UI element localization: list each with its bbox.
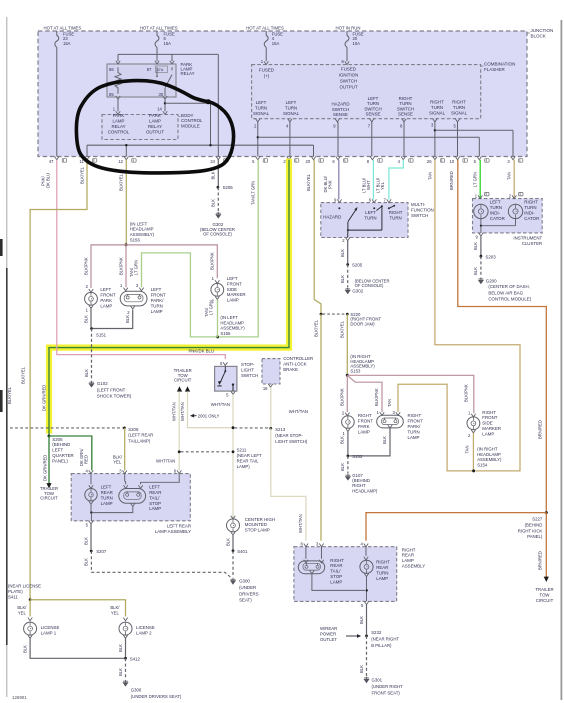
svg-text:15A: 15A [272,41,280,46]
svg-text:TURN: TURN [285,106,297,111]
ground G302 (switch side) [345,288,351,295]
wire TAN JB pin 26 to splice S154 and right front turn lamps [435,160,520,471]
svg-text:BLK/PNK: BLK/PNK [83,257,88,275]
svg-text:OUTPUT: OUTPUT [339,84,357,89]
body control module [102,115,178,140]
flasher pin 6 fused ignition switch output [345,61,349,64]
svg-text:S211: S211 [237,448,247,453]
svg-text:PNK/DK BLU: PNK/DK BLU [188,348,214,353]
wire flasher 7 to JB pin 8 [371,122,373,157]
dashed link left rear S211 [181,451,232,453]
svg-text:BLK: BLK [382,436,387,444]
svg-text:PLATE): PLATE) [8,589,23,594]
svg-text:BLK/YEL: BLK/YEL [119,173,124,191]
splice S205 (console) [217,186,220,189]
ground G102 left front shock tower [88,381,94,388]
svg-text:DOOR JAM): DOOR JAM) [350,322,375,327]
splice S206 [48,435,51,438]
wire BLK/PNK S153 to right front park lamp pin 2 [346,375,348,412]
svg-text:BLK: BLK [83,315,88,323]
wire BLK left rear pin 5 to splice S207 [90,524,92,550]
svg-text:26: 26 [427,159,432,164]
svg-text:STOP: STOP [149,501,161,506]
svg-text:RIGHT: RIGHT [358,413,372,418]
svg-text:(LEFT REAR: (LEFT REAR [128,433,153,438]
svg-text:CLUSTER: CLUSTER [522,241,543,246]
wire TAN right front side marker pin 2 to S154 [472,433,474,470]
svg-text:SENSE: SENSE [333,112,348,117]
svg-text:YEL: YEL [380,181,385,190]
wire WHT/TAN trailer branch 1 to left rear pin 6 [178,391,180,470]
svg-text:HOT AT ALL TIMES: HOT AT ALL TIMES [246,25,284,30]
svg-text:LAMP: LAMP [100,303,112,308]
svg-text:LAMP: LAMP [151,309,163,314]
svg-text:TAN: TAN [387,399,392,407]
wire BLK/PNK S156 to left front park lamp pin 2 [91,245,126,288]
wire DK GRN/RED S206 to left rear turn lamp pin 4 [49,436,92,470]
svg-text:HEADLAMP): HEADLAMP) [352,488,378,493]
svg-text:S205: S205 [223,185,234,190]
svg-text:LT GRN: LT GRN [473,172,478,187]
relay switch contact 87 to 30/87A [156,67,158,75]
wire side marker pin2 to S155 [217,299,219,302]
flasher pin 2 left turn signal [256,119,260,122]
svg-text:(CENTER OF DASH,: (CENTER OF DASH, [488,284,529,289]
splice S156 [125,243,128,246]
svg-text:SWITCH: SWITCH [411,213,428,218]
wire BLK S205 to ground G302 (dashed) [347,265,349,288]
svg-text:TURN: TURN [399,101,411,106]
wire BLK/PNK S153 to right front park/turn pin 1 [347,375,382,412]
wire flasher 2 to JB pin 5 with branch to cluster pin 5 [257,122,259,157]
svg-text:ASSEMBLY: ASSEMBLY [402,563,425,568]
svg-text:LEFT: LEFT [286,100,297,105]
splice S154 [472,469,475,472]
wire BLK license lamp 1 to S412 [30,638,124,658]
svg-text:CONTROL: CONTROL [181,118,203,123]
svg-text:SWITCH: SWITCH [364,106,381,111]
wire BLK/YEL JB pin 20 to splice S220 [314,160,321,314]
svg-text:LAMP: LAMP [149,506,161,511]
svg-text:STOP LAMP: STOP LAMP [245,527,270,532]
svg-text:SEAT): SEAT) [239,598,252,603]
wire WHT/TAN stop light switch pin 5 down to center stop lamp [232,394,234,519]
svg-text:BLK: BLK [118,668,123,676]
wire BRN/RED S227 to right rear turn pin 4 [366,513,546,541]
svg-text:LAMP): LAMP) [237,464,251,469]
svg-text:RIGHT: RIGHT [524,200,538,205]
svg-text:G102: G102 [97,381,108,386]
trailer tow circuit stop lamp arrows [177,386,182,391]
svg-text:TURN: TURN [367,101,379,106]
svg-text:CENTER HIGH: CENTER HIGH [245,517,275,522]
svg-text:(LEFT FRONT: (LEFT FRONT [97,387,126,392]
svg-text:SWITCH: SWITCH [241,373,258,378]
park lamp output bus inside junction block [87,144,314,146]
wire WHT/TAN ABS pin 18 to splice S213 [270,387,272,427]
wire BLK left front park lamp to S151 [90,308,92,327]
svg-text:47: 47 [49,159,54,164]
wire WHT/TAN S213 to right rear pin 6 [271,428,306,540]
svg-text:S203: S203 [485,254,496,259]
svg-text:LEFT: LEFT [100,287,111,292]
svg-text:BLK: BLK [473,242,478,250]
wire BLK license lamp 2 to S412 [125,638,127,658]
svg-text:S151: S151 [96,333,107,338]
svg-text:REAR TAIL: REAR TAIL [237,458,259,463]
wire flasher 9 to JB pin 6 [337,122,339,157]
mfs internal common wire [381,205,383,207]
svg-text:FLASHER: FLASHER [484,67,506,72]
flasher pin 1 fused(+) [264,61,268,64]
svg-text:G302: G302 [352,289,363,294]
splice S151 [90,327,93,330]
relay coil [115,67,121,94]
svg-text:MODULE: MODULE [181,124,200,129]
svg-text:BLK: BLK [473,267,478,275]
svg-text:(UNDER RIGHT: (UNDER RIGHT [372,684,404,689]
svg-text:RED: RED [84,455,89,464]
right rear pin 6 [304,544,308,547]
svg-text:(+): (+) [264,73,270,78]
license lamp 2 [123,618,127,621]
svg-text:G300: G300 [131,688,142,693]
park lamp relay K1 [107,64,176,97]
svg-text:PARK: PARK [358,424,370,429]
right rear assembly pin 5 [364,601,368,604]
svg-text:(BEHIND: (BEHIND [52,442,70,447]
svg-text:TURN: TURN [376,570,388,575]
svg-text:LAMP: LAMP [482,431,494,436]
svg-text:12: 12 [118,159,123,164]
wire BRN/RED JB pin 10 to splice S227 [458,160,547,511]
svg-text:S411: S411 [8,595,18,600]
svg-text:CATOR: CATOR [524,216,539,221]
multi-function switch [321,203,408,238]
splice S220 right front door jam [320,313,323,316]
svg-text:LAMP: LAMP [330,579,342,584]
svg-text:(NEAR RIGHT: (NEAR RIGHT [371,637,399,642]
flasher pin 4 left turn signal [288,119,292,122]
splice S232 near right B pillar [365,635,368,638]
left rear lamp assembly [71,474,190,521]
svg-text:LAMP: LAMP [358,430,370,435]
svg-text:FUNCTION: FUNCTION [411,208,434,213]
svg-text:PARK/: PARK/ [408,424,422,429]
svg-text:(IN RIGHT: (IN RIGHT [477,447,498,452]
svg-text:HOT IN RUN: HOT IN RUN [336,25,361,30]
svg-text:LEFT: LEFT [151,287,162,292]
svg-text:LAMP ASSEMBLY: LAMP ASSEMBLY [155,529,191,534]
wire BLK/YEL JB pin 12 to splice S156 [125,160,127,244]
svg-text:MARKER: MARKER [227,292,246,297]
license lamp 1 [28,618,32,621]
splice S203 [480,255,483,258]
svg-text:DK GRN/RED: DK GRN/RED [42,385,47,411]
svg-text:HEADLAMP: HEADLAMP [130,227,154,232]
wire BLK S401 to ground G300 (dashed) [232,551,234,578]
svg-text:BLK/PNK: BLK/PNK [118,257,123,275]
svg-text:FRONT: FRONT [358,419,373,424]
svg-text:SENSE: SENSE [366,112,381,117]
wire TAN/LT GRN JB pin 5 to splice S155 [219,160,258,337]
svg-text:18: 18 [263,386,268,391]
wire BLK/YEL S209 to left rear pin 3 [124,428,126,470]
left edge scan artifact 2 [0,390,3,412]
svg-text:DK GRN/RED: DK GRN/RED [43,455,48,481]
svg-text:RIGHT: RIGHT [430,99,444,104]
svg-text:RIGHT: RIGHT [482,410,496,415]
svg-text:S232: S232 [371,630,382,635]
svg-text:BLK/PNK: BLK/PNK [339,388,344,406]
svg-text:(UNDER: (UNDER [239,585,256,590]
svg-text:86: 86 [109,67,114,72]
junction block bottom connector pins [55,157,59,160]
svg-text:CONTROL MODULE): CONTROL MODULE) [488,297,531,302]
svg-text:BRN/RED: BRN/RED [538,420,543,439]
svg-text:MARKER: MARKER [482,426,501,431]
flasher pin 9 hazard switch sense [335,119,339,122]
wire relay 30 / BCM pin 14 junction to output riser [164,99,166,111]
wire BLK chmsl to splice S401 [232,535,234,549]
svg-text:BLK: BLK [211,171,216,179]
svg-text:BLK/PNK: BLK/PNK [210,252,215,270]
center high mounted stop lamp [231,516,235,519]
relay pin 30 [163,96,167,99]
ground G302 below center of console [215,212,221,219]
svg-text:LIGHT: LIGHT [241,367,254,372]
svg-text:REAR: REAR [376,565,388,570]
svg-text:TURN: TURN [453,105,465,110]
svg-text:LEFT: LEFT [227,276,238,281]
splice S205 (switch) [346,263,349,266]
right rear turn lamp [365,547,367,556]
svg-text:S412: S412 [130,657,141,662]
svg-text:G300: G300 [239,579,250,584]
svg-text:LAMP 2: LAMP 2 [136,630,152,635]
wire BLK S203 to ground G200 (dashed) [480,256,482,277]
wire BLK S205 to ground G302 (dashed) [217,187,219,211]
wire DK BLU/PNK JB pin 6 to multifunction switch pin 9 [338,160,340,200]
svg-text:BLK/YEL: BLK/YEL [306,173,311,191]
svg-text:BRN/RED: BRN/RED [449,171,454,190]
svg-text:RIGHT: RIGHT [376,560,390,565]
mfs pin 9 [337,199,341,202]
wire LT BLU/WHT JB pin 8 to multifunction switch pin 6 [372,160,374,200]
svg-text:SWITCH: SWITCH [397,106,414,111]
svg-text:WHT/TAN: WHT/TAN [289,409,308,414]
svg-text:LAMP: LAMP [101,501,113,506]
junction block (fuse/relay center) [38,31,527,157]
wire BLK S207 to ground G300 (dashed) [91,551,231,578]
wire BLK S412 to ground G300 (dashed) [125,658,127,679]
ink blob on circle [206,99,211,104]
fuse 23 15A [56,31,58,36]
junction dot stop lamp wire [232,426,235,429]
left rear turn lamp [90,474,92,485]
svg-text:14: 14 [157,106,162,111]
svg-text:TURN: TURN [101,495,113,500]
relay pin 86 [116,61,120,64]
hand-drawn circle annotation around park lamp relay circuit [76,81,233,173]
wire BLK/PNK S156 to left front side marker pin 1 [126,245,217,278]
svg-text:TURN: TURN [389,216,401,221]
svg-text:SHOCK TOWER): SHOCK TOWER) [97,394,132,399]
svg-text:CIRCUIT: CIRCUIT [174,378,192,383]
svg-text:BLK: BLK [359,665,364,673]
svg-text:ASSEMBLY): ASSEMBLY) [220,326,245,331]
svg-text:INDI-: INDI- [524,211,535,216]
svg-text:LEFT: LEFT [365,210,376,215]
svg-text:BLK/PNK: BLK/PNK [374,388,379,406]
svg-text:S206: S206 [52,437,63,442]
svg-text:CIRCUIT: CIRCUIT [536,598,554,603]
svg-text:(IN LEFT: (IN LEFT [220,315,238,320]
svg-text:REAR: REAR [402,553,414,558]
svg-text:S152: S152 [352,454,363,459]
right rear pin 3 [319,544,323,547]
cluster pin 1 [478,195,482,198]
svg-text:ASSEMBLY): ASSEMBLY) [477,457,502,462]
wire flasher 4 to JB pin 2 [289,122,291,157]
svg-text:LEFT: LEFT [149,485,160,490]
svg-text:ASSEMBLY): ASSEMBLY) [130,232,155,237]
svg-text:RIGHT: RIGHT [399,96,413,101]
svg-text:RELAY: RELAY [181,71,195,76]
left page border [6,17,8,697]
svg-text:BLK/YEL: BLK/YEL [80,166,85,184]
svg-text:HEADLAMP: HEADLAMP [220,320,244,325]
svg-text:S207: S207 [96,549,107,554]
svg-text:BELOW AIR BAG: BELOW AIR BAG [488,290,523,295]
svg-text:(IN LEFT: (IN LEFT [130,221,148,226]
svg-text:TURN: TURN [151,303,163,308]
wire flasher 3 to JB pin 26 with branch to JB pin 3 [434,122,436,157]
2001 only note [190,414,194,418]
svg-text:TAN: TAN [465,445,470,453]
svg-text:FRONT: FRONT [482,415,497,420]
svg-text:BLK/YEL: BLK/YEL [7,386,12,404]
svg-text:LICENSE: LICENSE [136,625,155,630]
svg-text:BLK: BLK [125,315,130,323]
svg-text:PARK: PARK [113,113,125,118]
left edge scan artifact 1 [0,239,3,256]
svg-text:LT GRN: LT GRN [134,260,139,275]
svg-text:BLK: BLK [340,249,345,257]
svg-text:PANEL): PANEL) [527,534,543,539]
svg-text:LAMP: LAMP [227,298,239,303]
stop light switch contacts [224,366,226,370]
svg-text:TAN/LT GRN: TAN/LT GRN [251,181,256,205]
right page border [560,20,562,700]
wire flasher 5 to JB pin 10 [457,122,459,157]
svg-text:YEL: YEL [18,610,27,615]
svg-text:126901: 126901 [12,695,27,700]
svg-text:BLK: BLK [339,436,344,444]
svg-text:OUTPUT: OUTPUT [146,129,164,134]
svg-text:87A: 87A [157,68,164,72]
svg-text:85: 85 [109,92,114,97]
flasher pin 3 right turn signal [433,119,437,122]
svg-text:BLK/YEL: BLK/YEL [20,366,25,384]
svg-text:TAILLAMP): TAILLAMP) [128,438,150,443]
wire BLK left front park/turn pin 2 to S151 [93,310,133,329]
svg-text:SIGNAL: SIGNAL [451,110,468,115]
svg-text:FRONT: FRONT [100,293,115,298]
left front park lamp [89,289,93,292]
svg-text:LICENSE: LICENSE [41,625,60,630]
flasher pin 5 right turn signal [455,119,459,122]
wire flasher 8 to JB pin 4 [403,122,405,157]
svg-text:SENSE: SENSE [398,112,413,117]
svg-text:DRIVERS: DRIVERS [239,591,259,596]
svg-text:RIGHT: RIGHT [402,547,416,552]
svg-text:10: 10 [450,159,455,164]
svg-text:SWITCH: SWITCH [332,107,349,112]
right front park/turn lamp [380,412,384,415]
svg-text:S156: S156 [130,237,141,242]
wire BLK/YEL S220 to right rear lamp pin 3 [320,314,322,541]
controller anti-lock brake [262,359,280,384]
wire WHT/TAN trailer branch 2 (2001 only) to stop lamp wire [188,391,232,427]
svg-text:BRAKE: BRAKE [283,367,298,372]
mfs pin 7 [387,199,391,202]
svg-text:WHT/TAN: WHT/TAN [180,402,185,421]
svg-text:B PILLAR): B PILLAR) [371,643,392,648]
svg-text:FUSED: FUSED [259,67,274,72]
wire BLK S152 to ground G107 (dashed) [347,456,349,474]
wire TAN S154 to right front park/turn lamp pin 3 [398,384,472,471]
left turn indicator lamp [474,204,488,218]
cluster pin 2 [512,195,516,198]
svg-text:OUTLET: OUTLET [320,637,337,642]
right rear lamp assembly [294,547,397,602]
svg-text:G301: G301 [372,678,383,683]
svg-text:CONTROLLER: CONTROLLER [283,356,313,361]
svg-text:CATOR: CATOR [490,216,505,221]
svg-text:BRN/RED: BRN/RED [538,551,543,570]
svg-text:S401: S401 [237,549,248,554]
splice S153 [346,374,349,377]
svg-text:INDI-: INDI- [490,211,501,216]
cluster pin 9 [479,233,483,236]
ground G107 behind right headlamp [345,474,351,481]
svg-text:TAN: TAN [427,172,432,180]
ground G200 center of dash [478,278,484,285]
svg-text:S227: S227 [532,517,543,522]
svg-text:WHT/TAN: WHT/TAN [298,514,303,533]
splice S213 near stop light switch [269,427,272,430]
svg-text:(BEHIND: (BEHIND [525,522,543,527]
svg-text:87: 87 [147,67,152,72]
svg-text:LAMP: LAMP [376,576,388,581]
left rear tail/stop lamp [125,474,126,485]
svg-text:TAIL/: TAIL/ [330,569,341,574]
svg-text:(UNDER DRIVERS SEAT): (UNDER DRIVERS SEAT) [131,694,182,699]
relay pin 87A [170,61,174,64]
svg-text:RIGHT: RIGHT [330,558,344,563]
svg-text:REAR: REAR [149,490,161,495]
splice S412 [124,657,127,660]
svg-text:STOP-: STOP- [241,362,255,367]
svg-text:INSTRUMENT: INSTRUMENT [513,236,542,241]
left rear pin 3 [123,470,127,473]
wire DK GRN/RED JB pin 2 to splice S206 (highlighted) [49,160,289,436]
wire LT GRN JB pin 5 to cluster left turn indicator [479,160,481,199]
svg-text:10A: 10A [353,41,361,46]
svg-text:RELAY: RELAY [148,124,162,129]
svg-text:15A: 15A [164,41,172,46]
